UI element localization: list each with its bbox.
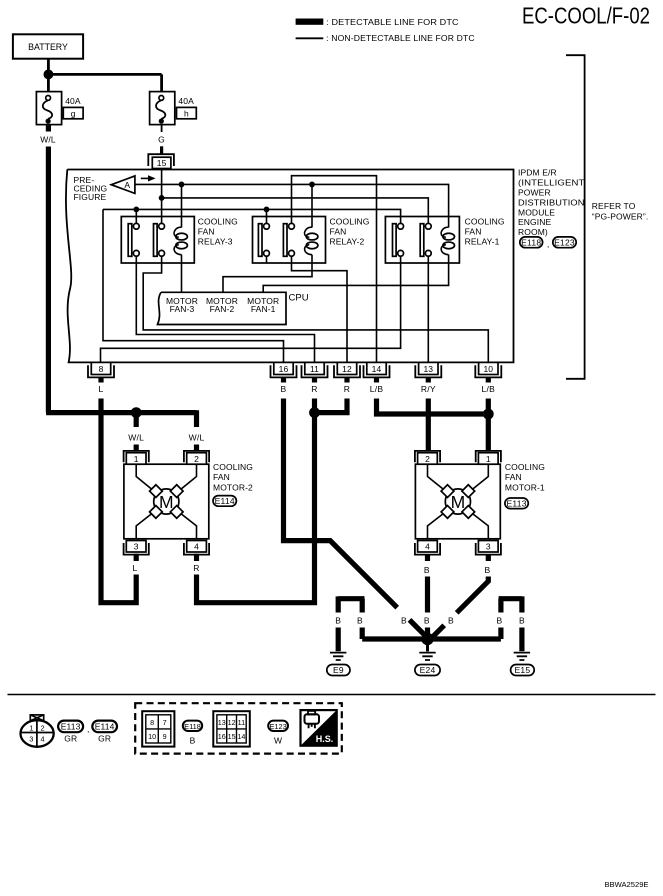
wire ground bus <box>362 636 501 641</box>
wire B branch to ground E15 <box>497 596 525 651</box>
wire W/L labels at fan motor-2 <box>128 433 204 451</box>
relay K2 cooling fan relay-2 <box>253 216 370 263</box>
svg-text:10: 10 <box>483 364 493 374</box>
svg-text:FAN: FAN <box>465 227 482 237</box>
legend detectable line <box>296 17 459 27</box>
svg-text:RELAY-2: RELAY-2 <box>330 237 365 247</box>
svg-text:B: B <box>519 616 525 626</box>
svg-text:FAN: FAN <box>198 227 215 237</box>
svg-text:E113: E113 <box>61 722 81 732</box>
svg-text:COOLING: COOLING <box>330 216 370 226</box>
wire relay-1 coil to CPU motor fan-1 <box>263 217 448 293</box>
svg-text:4: 4 <box>194 542 199 552</box>
arrow flow direction <box>141 175 156 181</box>
node W/L junction <box>131 407 142 418</box>
svg-text:COOLING: COOLING <box>465 216 505 226</box>
svg-text:2: 2 <box>41 723 45 732</box>
wire R connectors 11 and 12 to fan motor-2 pin 4 <box>193 399 347 603</box>
svg-text:B: B <box>357 616 363 626</box>
connector label E123 <box>553 237 576 248</box>
node bus1 relay-2 coil <box>309 182 315 188</box>
connector pin 12 IPDM output <box>334 362 360 393</box>
svg-text:15: 15 <box>228 732 236 741</box>
svg-text:4: 4 <box>41 735 45 744</box>
wire battery feed <box>48 59 161 92</box>
svg-text:CPU: CPU <box>289 292 309 303</box>
wire relay-2 contact1 tap <box>266 209 268 263</box>
svg-text:11: 11 <box>238 718 245 727</box>
svg-text:FIGURE: FIGURE <box>74 192 107 202</box>
ground symbol E9 <box>327 653 350 676</box>
wire B fan motor-1 pin 3 to ground E24 <box>431 555 491 639</box>
svg-text:13: 13 <box>423 364 433 374</box>
svg-text:E123: E123 <box>554 237 575 247</box>
svg-text:1: 1 <box>486 454 491 464</box>
relay K3 cooling fan relay-3 <box>121 216 238 263</box>
svg-text:FAN: FAN <box>330 227 347 237</box>
svg-text:40A: 40A <box>178 96 194 106</box>
wire W/L fuse g to harness <box>40 125 196 427</box>
svg-text:L/B: L/B <box>370 384 384 394</box>
svg-text:E118: E118 <box>184 722 201 731</box>
wire relay-3 contact2 bottom to connector 10 <box>143 253 488 362</box>
svg-text:12: 12 <box>342 364 352 374</box>
svg-text:E123: E123 <box>269 722 286 731</box>
svg-text:GR: GR <box>98 734 111 744</box>
svg-text:1: 1 <box>134 454 139 464</box>
svg-text:EC-COOL/F-02: EC-COOL/F-02 <box>522 2 650 28</box>
bus 2 to relay-1 contact2 <box>162 198 429 226</box>
svg-text:R/Y: R/Y <box>421 384 436 394</box>
svg-text:POWER: POWER <box>518 188 551 198</box>
connector label E114 legend <box>92 721 117 744</box>
svg-text:15: 15 <box>157 158 167 168</box>
svg-text:16: 16 <box>218 732 226 741</box>
svg-text:M: M <box>159 492 174 512</box>
wire relay-1 contact1 bottom to connector 8 <box>101 253 401 362</box>
svg-text:GR: GR <box>64 734 77 744</box>
svg-text:R: R <box>311 384 317 394</box>
label BBWA2529E <box>604 880 648 889</box>
wire L connector 8 to fan motor-2 pin 3 <box>101 399 138 603</box>
node battery junction <box>44 70 54 80</box>
wire B connector 16 to ground E24 <box>284 399 426 636</box>
svg-text:L/B: L/B <box>482 384 496 394</box>
node bus2 tap <box>159 195 165 201</box>
connector label E118 legend <box>183 721 202 746</box>
svg-text:REFER TO: REFER TO <box>592 201 636 211</box>
wire bus3 wrap to connector 16 <box>103 209 284 362</box>
motor M2 cooling fan motor-2 E114 <box>124 451 253 555</box>
bus 3 to relay-1 contact1 <box>103 209 401 226</box>
legend non-detectable line <box>296 33 475 43</box>
svg-text:11: 11 <box>310 364 319 374</box>
svg-text:: DETECTABLE LINE FOR DTC: : DETECTABLE LINE FOR DTC <box>326 17 459 27</box>
svg-text:,: , <box>547 239 549 249</box>
wire relay-3 coil feeds <box>181 184 183 292</box>
svg-text:W/L: W/L <box>128 433 144 443</box>
wire L/B connector 10 to fan motor-1 pin 1 <box>486 399 491 451</box>
svg-text:3: 3 <box>486 542 491 552</box>
icon H.S. harness side view <box>301 710 337 746</box>
svg-text:W/L: W/L <box>189 433 205 443</box>
svg-text:E118: E118 <box>521 237 541 247</box>
svg-text:3: 3 <box>29 735 33 744</box>
wire relay-2 contact2 top to connector 14 <box>292 176 377 363</box>
bus 1 pin15 feed to relay coils <box>135 184 449 216</box>
svg-text:8: 8 <box>150 718 154 727</box>
svg-text:G: G <box>158 135 165 145</box>
svg-text:B: B <box>335 616 341 626</box>
svg-text:E114: E114 <box>95 722 115 732</box>
svg-text:E114: E114 <box>215 496 235 506</box>
svg-text:E24: E24 <box>420 665 436 675</box>
svg-text:DISTRIBUTION: DISTRIBUTION <box>518 197 585 207</box>
svg-text:B: B <box>497 616 503 626</box>
node bus1 relay-3 coil <box>179 182 185 188</box>
connector pin 15 <box>148 154 174 168</box>
svg-text:10: 10 <box>148 732 156 741</box>
svg-text:E9: E9 <box>333 665 344 675</box>
fuse h 40A <box>150 92 197 125</box>
svg-text:40A: 40A <box>65 96 81 106</box>
wire relay-3 contact1 tap <box>135 209 137 226</box>
label PRE-CEDING FIGURE <box>74 175 108 202</box>
connector grid E123 pins 13 12 11 16 15 14 <box>213 711 250 746</box>
ground symbol E24 <box>415 643 440 676</box>
node bus3 relay-3 contact1 <box>133 207 139 213</box>
svg-text:L: L <box>133 563 138 573</box>
battery <box>13 34 83 58</box>
svg-text:IPDM E/R: IPDM E/R <box>518 168 557 178</box>
svg-text:13: 13 <box>218 718 226 727</box>
svg-text:4: 4 <box>425 542 430 552</box>
title EC-COOL/F-02 <box>522 2 650 28</box>
wire B fan motor-1 pin 4 to ground E24 <box>424 555 430 639</box>
svg-text:FAN-3: FAN-3 <box>170 304 195 314</box>
wire L/B connector 14 join <box>377 399 489 415</box>
svg-text:BBWA2529E: BBWA2529E <box>604 880 648 889</box>
svg-text:MODULE: MODULE <box>518 207 555 217</box>
relay K1 cooling fan relay-1 <box>385 216 504 263</box>
svg-text:MOTOR-1: MOTOR-1 <box>505 482 545 492</box>
svg-text:M: M <box>451 492 466 512</box>
svg-text:16: 16 <box>279 364 289 374</box>
fuse g 40A <box>36 92 83 125</box>
svg-text:L: L <box>99 384 104 394</box>
svg-text:FAN: FAN <box>505 472 522 482</box>
svg-text:7: 7 <box>163 718 167 727</box>
connector pin 16 IPDM output <box>271 362 297 393</box>
svg-text:H.S.: H.S. <box>316 734 334 744</box>
svg-text:12: 12 <box>228 718 236 727</box>
connector label E118 <box>520 237 550 249</box>
svg-text:FAN-2: FAN-2 <box>210 304 235 314</box>
connector marker A to preceding figure <box>111 176 135 194</box>
wire relay-3 contact1 bottom to connector 11 <box>136 253 314 362</box>
svg-text:RELAY-1: RELAY-1 <box>465 237 500 247</box>
svg-text:(INTELLIGENT: (INTELLIGENT <box>518 178 585 188</box>
connector pin 8 IPDM output <box>88 362 114 393</box>
node L/B junction <box>483 409 494 420</box>
wire G fuse h to pin 15 <box>158 125 165 154</box>
separator line <box>8 694 656 696</box>
wire relay-2 contact2 bottom to connector 12 <box>292 253 348 362</box>
svg-text:B: B <box>281 384 287 394</box>
svg-text:E15: E15 <box>514 665 530 675</box>
connector label E113 legend <box>58 721 89 744</box>
connector grid E118 pins 8 7 10 9 <box>142 711 174 746</box>
ground symbol E15 <box>511 653 535 676</box>
svg-text:ROOM): ROOM) <box>518 227 548 237</box>
motor M1 cooling fan motor-1 E113 <box>415 451 545 555</box>
refer to PG-POWER bracket <box>566 55 648 379</box>
wire B branch to ground E9 <box>335 596 364 651</box>
svg-text:2: 2 <box>425 454 430 464</box>
connector label E123 legend <box>268 721 288 746</box>
svg-text:B: B <box>424 565 430 575</box>
node bus3 relay-2 contact1 <box>264 207 270 213</box>
svg-text:9: 9 <box>163 732 167 741</box>
CPU box <box>158 292 309 324</box>
node ground junction E24 <box>421 633 433 645</box>
svg-text:R: R <box>344 384 350 394</box>
svg-text:BATTERY: BATTERY <box>28 42 68 52</box>
connector pin 10 IPDM output <box>475 362 501 393</box>
IPDM E/R box outline <box>66 170 514 363</box>
legend dashed group box <box>135 703 342 753</box>
svg-text:RELAY-3: RELAY-3 <box>198 237 233 247</box>
svg-text:W/L: W/L <box>40 135 56 145</box>
svg-text:A: A <box>124 180 130 190</box>
wire R/Y connector 13 to fan motor-1 pin 2 <box>426 399 431 451</box>
svg-text:g: g <box>71 108 76 118</box>
svg-text:,: , <box>87 724 89 734</box>
svg-text:1: 1 <box>29 723 33 732</box>
svg-text:2: 2 <box>194 454 199 464</box>
svg-text:8: 8 <box>99 364 104 374</box>
svg-text:“PG-POWER”.: “PG-POWER”. <box>592 212 649 222</box>
legend motor connector face 1 2 3 4 <box>20 715 53 747</box>
connector pin 11 IPDM output <box>302 362 328 393</box>
wire relay-1 contact2 bottom to connector 13 <box>427 253 429 362</box>
svg-text:h: h <box>184 108 189 118</box>
svg-text:B: B <box>190 736 196 746</box>
svg-text:ENGINE: ENGINE <box>518 217 552 227</box>
svg-text:R: R <box>193 563 199 573</box>
svg-text:B: B <box>424 616 430 626</box>
connector pin 14 IPDM output <box>364 362 390 393</box>
svg-text:E113: E113 <box>506 498 526 508</box>
svg-text:COOLING: COOLING <box>213 462 253 472</box>
svg-text:14: 14 <box>372 364 382 374</box>
svg-text:MOTOR-2: MOTOR-2 <box>213 482 253 492</box>
label IPDM E/R intelligent power distribution module engine room <box>518 168 585 237</box>
svg-text:B: B <box>401 616 407 626</box>
svg-text:3: 3 <box>134 542 139 552</box>
svg-text:14: 14 <box>237 732 245 741</box>
svg-text:COOLING: COOLING <box>198 216 238 226</box>
svg-text:: NON-DETECTABLE LINE FOR DTC: : NON-DETECTABLE LINE FOR DTC <box>326 33 475 43</box>
svg-text:FAN-1: FAN-1 <box>251 304 276 314</box>
svg-text:COOLING: COOLING <box>505 462 545 472</box>
connector pin 13 IPDM output <box>415 362 441 393</box>
svg-text:B: B <box>448 616 454 626</box>
node R junction <box>309 407 320 418</box>
svg-text:W: W <box>274 736 282 746</box>
wire relay-2 coil feed and to CPU motor fan-2 <box>223 184 312 292</box>
svg-text:FAN: FAN <box>213 472 230 482</box>
wire pin15 to relay-3 contact2 <box>161 169 163 227</box>
svg-text:B: B <box>485 565 491 575</box>
